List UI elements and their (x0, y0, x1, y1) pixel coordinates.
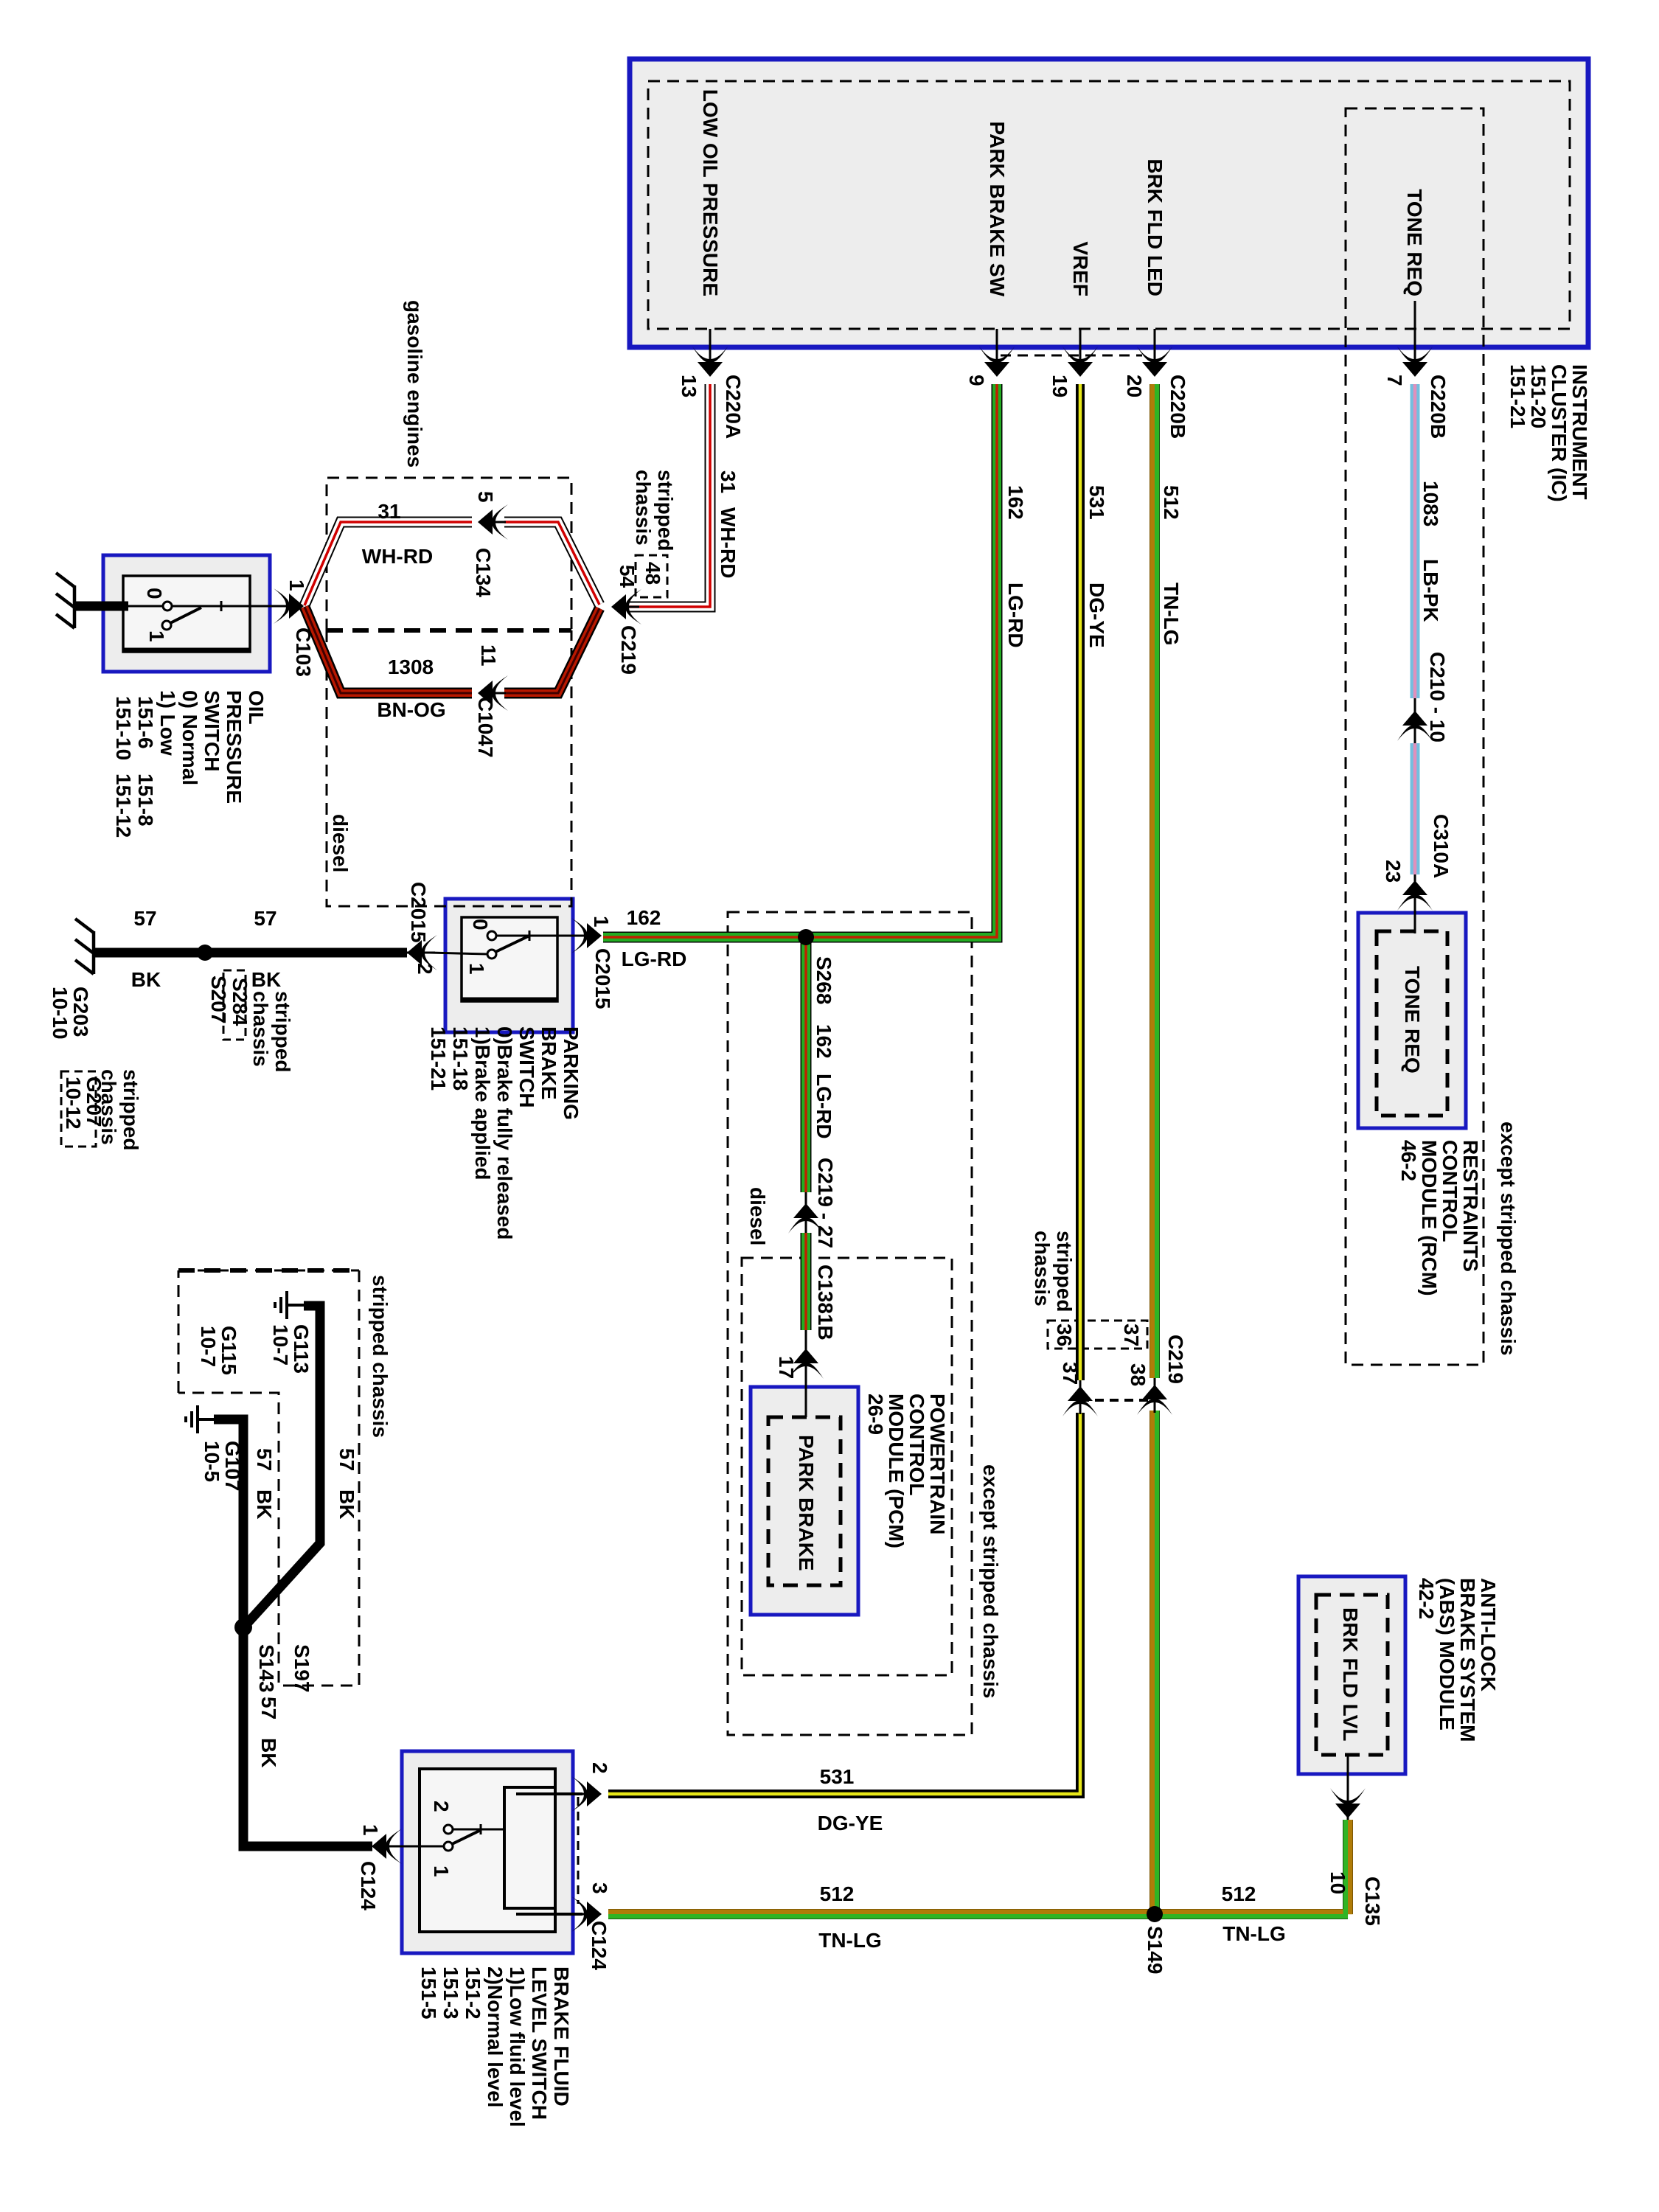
brake fluid level switch inner rect (420, 1769, 555, 1932)
svg-text:512: 512 (1222, 1882, 1256, 1905)
connector C219-27 arrow (788, 1203, 824, 1234)
thin line brake fluid pin 2 (516, 1792, 582, 1795)
dashed boxlet around 48 (636, 555, 667, 597)
svg-text:42-2: 42-2 (1415, 1578, 1438, 1619)
wire 1083 LB-PK from C210-10 to C310A (1411, 743, 1420, 931)
svg-text:except stripped chassis: except stripped chassis (979, 1464, 1002, 1698)
brake fluid level switch element rect (504, 1787, 555, 1908)
svg-text:stripped: stripped (271, 991, 294, 1072)
svg-text:151-18: 151-18 (449, 1026, 472, 1091)
svg-text:DG-YE: DG-YE (1085, 582, 1108, 648)
IC pin stubs (710, 301, 1415, 363)
svg-text:2: 2 (588, 1762, 611, 1774)
svg-text:BK: BK (257, 1738, 280, 1767)
svg-text:VREF: VREF (1069, 241, 1092, 296)
svg-text:162: 162 (1004, 485, 1027, 520)
oil pressure switch contacts (162, 601, 285, 630)
svg-text:1: 1 (145, 630, 168, 642)
svg-text:10-5: 10-5 (201, 1441, 223, 1482)
diesel dashed box around PCM circuit (728, 912, 972, 1735)
svg-text:151-21: 151-21 (427, 1026, 450, 1091)
svg-text:C220B: C220B (1166, 375, 1189, 439)
thin line brake fluid pin 3 (516, 1913, 582, 1916)
svg-text:S268: S268 (813, 956, 835, 1004)
svg-text:stripped: stripped (1053, 1231, 1076, 1312)
powertrain control module (PCM) box (751, 1387, 858, 1615)
svg-text:9: 9 (965, 375, 988, 386)
svg-text:LG-RD: LG-RD (1004, 582, 1027, 648)
svg-text:151-2: 151-2 (462, 1966, 484, 2020)
thin line RCM TONE REQ stub (1414, 905, 1416, 933)
ground wire into oil pressure switch (76, 602, 128, 611)
wire 57 BK from G203 to parking brake switch pin 2 (95, 948, 407, 958)
svg-text:C219 - 27: C219 - 27 (814, 1158, 837, 1248)
svg-text:PARK BRAKE: PARK BRAKE (795, 1435, 818, 1571)
thin line C124 pin1 into switch (394, 1846, 453, 1848)
svg-text:C219: C219 (1164, 1335, 1187, 1384)
svg-text:chassis: chassis (97, 1069, 120, 1145)
svg-text:7: 7 (1383, 375, 1406, 386)
svg-text:LOW OIL PRESSURE: LOW OIL PRESSURE (699, 89, 722, 296)
svg-text:C210 - 10: C210 - 10 (1426, 652, 1449, 742)
svg-text:BK: BK (131, 968, 161, 991)
connector C220A pin 13 arrow (692, 347, 728, 377)
svg-text:WH-RD: WH-RD (717, 507, 740, 578)
svg-text:BRK FLD LED: BRK FLD LED (1144, 159, 1166, 296)
svg-text:stripped chassis: stripped chassis (369, 1275, 392, 1438)
svg-text:C2015: C2015 (591, 948, 614, 1009)
svg-text:gasoline engines: gasoline engines (403, 300, 426, 467)
svg-text:162: 162 (627, 906, 661, 929)
svg-text:48: 48 (641, 562, 664, 585)
wire 162 LG-RD branch from S268 to C219-27 (801, 937, 812, 1233)
svg-text:38: 38 (1127, 1363, 1150, 1386)
svg-text:C219: C219 (617, 625, 640, 675)
svg-text:RESTRAINTS: RESTRAINTS (1459, 1140, 1482, 1272)
ground symbol G113 (275, 1291, 305, 1319)
svg-text:0)Brake fully released: 0)Brake fully released (493, 1026, 516, 1240)
svg-text:G113: G113 (290, 1324, 313, 1374)
svg-text:37: 37 (1120, 1324, 1143, 1346)
svg-text:WH-RD: WH-RD (362, 545, 433, 568)
svg-text:S143: S143 (255, 1644, 278, 1692)
svg-text:C1381B: C1381B (814, 1265, 837, 1340)
svg-text:1083: 1083 (1419, 481, 1442, 526)
connector C219 WH-RD arrow (611, 589, 641, 625)
svg-text:TONE REQ: TONE REQ (1403, 189, 1426, 296)
parking brake switch contacts (487, 931, 573, 959)
dashed link between C124 pins 2 and 3 (577, 1797, 580, 1904)
diesel dashed box (hexagon lower) (327, 630, 571, 906)
svg-text:23: 23 (1382, 860, 1405, 883)
ground symbol G103 (56, 573, 74, 628)
svg-text:chassis: chassis (632, 470, 655, 546)
ABS module box (1298, 1576, 1405, 1774)
svg-text:512: 512 (820, 1882, 855, 1905)
svg-text:1: 1 (590, 916, 613, 928)
svg-text:MODULE (RCM): MODULE (RCM) (1418, 1140, 1441, 1296)
wire 1308 BN-OG hexagon bottom branch (diesel) (305, 607, 599, 693)
svg-text:0: 0 (469, 919, 492, 931)
svg-text:SWITCH: SWITCH (515, 1026, 538, 1107)
dashed bracket line below IC pins (1001, 355, 1142, 357)
svg-text:512: 512 (1160, 485, 1183, 520)
svg-text:531: 531 (1085, 485, 1108, 520)
svg-text:G203: G203 (69, 987, 92, 1037)
brake fluid level switch contacts (444, 1824, 504, 1851)
connector C310A pin 23 arrow (1397, 880, 1433, 911)
svg-text:S197: S197 (291, 1644, 313, 1692)
svg-text:BRK FLD LVL: BRK FLD LVL (1339, 1607, 1362, 1741)
svg-text:57: 57 (253, 1448, 276, 1471)
svg-text:1: 1 (465, 963, 488, 975)
ground symbol G107 (186, 1405, 215, 1433)
wire 162 LG-RD from C219-27 to C1381B (801, 1233, 812, 1417)
splice S207 (197, 945, 213, 961)
svg-text:10-12: 10-12 (62, 1077, 85, 1130)
svg-text:1: 1 (359, 1824, 382, 1836)
svg-text:S284: S284 (229, 978, 251, 1026)
svg-text:531: 531 (820, 1765, 855, 1788)
splice S143 (234, 1618, 252, 1636)
connector C135 pin 10 arrow (1330, 1788, 1366, 1818)
svg-text:1: 1 (430, 1865, 453, 1877)
svg-text:BK: BK (335, 1489, 358, 1519)
svg-text:LEVEL SWITCH: LEVEL SWITCH (528, 1966, 551, 2120)
svg-text:CONTROL: CONTROL (905, 1394, 928, 1495)
thin line parking brake pin 2 arrow gap (407, 952, 430, 954)
svg-text:CLUSTER (IC): CLUSTER (IC) (1548, 364, 1571, 502)
tall dashed box around TONE REQ circuit (1346, 108, 1484, 1365)
svg-text:diesel: diesel (329, 814, 352, 872)
dashed boxlet around G207 10-12 (61, 1071, 96, 1147)
svg-text:151-10: 151-10 (112, 696, 135, 760)
svg-text:OIL: OIL (245, 690, 268, 725)
svg-text:0) Normal: 0) Normal (178, 690, 201, 785)
svg-text:57: 57 (257, 1697, 280, 1719)
svg-text:CONTROL: CONTROL (1439, 1140, 1461, 1242)
svg-text:LG-RD: LG-RD (813, 1074, 835, 1139)
svg-text:1) Low: 1) Low (156, 690, 179, 756)
connector C103 pin 1 arrow (274, 588, 304, 624)
C219 dashed boxlet 36/37 (1048, 1321, 1147, 1349)
svg-text:57: 57 (335, 1448, 358, 1471)
svg-text:PARKING: PARKING (560, 1026, 582, 1120)
svg-text:SWITCH: SWITCH (201, 690, 223, 771)
connector C2015 pin 2 arrow (407, 935, 437, 970)
connector C1381B pin 17 arrow (788, 1349, 824, 1379)
RCM TONE REQ dashed box (1377, 931, 1447, 1116)
svg-text:MODULE (PCM): MODULE (PCM) (885, 1394, 908, 1548)
splice S268 (798, 929, 814, 945)
svg-text:ANTI-LOCK: ANTI-LOCK (1477, 1578, 1500, 1691)
svg-text:151-20: 151-20 (1527, 364, 1550, 428)
svg-text:10: 10 (1326, 1871, 1349, 1894)
svg-text:2: 2 (414, 963, 437, 975)
connector C2015 pin 1 arrow (571, 918, 602, 953)
svg-text:2)Normal level: 2)Normal level (484, 1966, 507, 2107)
svg-text:57: 57 (254, 907, 276, 930)
wire 162 LG-RD from IC pin 9 to S268 and parking brake switch (603, 384, 997, 937)
svg-text:stripped: stripped (654, 470, 677, 551)
svg-text:TONE REQ: TONE REQ (1401, 966, 1424, 1074)
svg-text:13: 13 (678, 375, 700, 397)
svg-text:3: 3 (588, 1882, 611, 1894)
svg-text:BK: BK (251, 968, 281, 991)
svg-text:chassis: chassis (249, 991, 272, 1067)
connector C124 pin 1 arrow (372, 1829, 402, 1864)
svg-text:TN-LG: TN-LG (818, 1929, 882, 1952)
ABS BRK FLD LVL dashed box (1316, 1595, 1388, 1755)
svg-text:PRESSURE: PRESSURE (223, 690, 246, 804)
svg-text:37: 37 (1059, 1362, 1082, 1385)
connector C220B pin 9 arrow (979, 347, 1015, 377)
svg-text:162: 162 (813, 1024, 835, 1059)
svg-text:POWERTRAIN: POWERTRAIN (926, 1394, 949, 1534)
brake fluid level switch box (402, 1751, 573, 1953)
svg-text:(ABS) MODULE: (ABS) MODULE (1436, 1578, 1458, 1731)
svg-text:TN-LG: TN-LG (1222, 1922, 1286, 1945)
svg-text:151-8: 151-8 (134, 773, 157, 827)
svg-text:diesel: diesel (746, 1187, 769, 1245)
svg-text:chassis: chassis (1031, 1231, 1054, 1307)
instrument cluster (IC) box (630, 59, 1588, 347)
svg-text:0: 0 (143, 588, 166, 599)
svg-text:1308: 1308 (388, 655, 434, 678)
wire 57 BK G107 branch through S143 to C124 pin 1 (214, 1419, 372, 1846)
parking brake switch box (445, 899, 573, 1032)
svg-text:INSTRUMENT: INSTRUMENT (1568, 364, 1591, 500)
svg-text:LB-PK: LB-PK (1419, 559, 1442, 622)
connector C210-10 arrow (1397, 711, 1433, 741)
svg-text:11: 11 (477, 644, 500, 667)
connector C220B pin 20 arrow (1137, 347, 1172, 377)
svg-text:C220A: C220A (722, 375, 745, 439)
splice S149 (1147, 1906, 1163, 1922)
parking brake switch inner rect (462, 917, 557, 1001)
connector C1047 pin 11 arrow (478, 675, 508, 711)
svg-text:17: 17 (775, 1356, 798, 1379)
connector C220B pin 7 arrow (1397, 347, 1433, 377)
thin line parking brake pin 1 (573, 935, 584, 937)
connector C220B pin 19 arrow (1062, 347, 1098, 377)
bold dashed divider line (327, 628, 571, 633)
svg-text:31: 31 (378, 500, 400, 523)
svg-text:stripped: stripped (119, 1069, 142, 1150)
svg-text:BN-OG: BN-OG (377, 698, 445, 721)
svg-text:LG-RD: LG-RD (622, 947, 687, 970)
svg-text:G107: G107 (221, 1441, 244, 1492)
wire 512 TN-LG horizontal from brake fluid switch pin 3 through S149 to C135 (608, 1755, 1350, 1916)
wire 512 TN-LG from IC pin 20 to C219 (1152, 384, 1157, 1411)
svg-text:S149: S149 (1144, 1926, 1166, 1974)
wire 512 TN-LG from C219 to S149 (1152, 1411, 1157, 1914)
svg-text:DG-YE: DG-YE (818, 1812, 883, 1834)
wire 31 WH-RD from IC pin 13 (628, 384, 710, 607)
svg-text:C103: C103 (292, 627, 315, 677)
PCM PARK BRAKE dashed box (768, 1417, 841, 1585)
IC inner dashed outline (648, 81, 1570, 329)
svg-text:G115: G115 (218, 1326, 240, 1375)
wire 531 DG-YE from C219 to brake fluid level switch pin 2 (608, 1413, 1080, 1794)
dashed link between C219 pins 37 and 38 (1080, 1399, 1155, 1402)
svg-text:2: 2 (430, 1801, 453, 1812)
svg-text:151-5: 151-5 (417, 1966, 440, 2020)
svg-text:S207: S207 (207, 975, 230, 1023)
oil pressure switch inner rect (123, 576, 250, 652)
restraints control module (RCM) box (1358, 913, 1466, 1128)
svg-text:C134: C134 (472, 548, 495, 597)
svg-text:151-3: 151-3 (439, 1966, 462, 2020)
svg-text:26-9: 26-9 (864, 1394, 887, 1435)
thin line ABS BRK FLD LVL stub (1347, 1755, 1349, 1808)
stripped chassis dashed box around G113 ground (178, 1270, 359, 1686)
svg-text:1)Brake applied: 1)Brake applied (471, 1026, 494, 1180)
svg-text:151-6: 151-6 (134, 696, 157, 749)
svg-text:46-2: 46-2 (1397, 1140, 1420, 1181)
wire WH-RD hexagon top branch (gasoline) (305, 522, 599, 605)
wire 1083 LB-PK from IC pin 7 to C210-10 (1411, 384, 1420, 743)
svg-text:10-7: 10-7 (197, 1326, 220, 1367)
connector C124 pin 3 arrow (571, 1896, 602, 1932)
gasoline engines dashed box (327, 478, 571, 630)
svg-text:1: 1 (285, 580, 308, 591)
dashed boxlet around S284 (223, 970, 246, 1040)
oil pressure switch box (103, 555, 270, 672)
svg-text:BK: BK (253, 1489, 276, 1519)
svg-text:PARK BRAKE SW: PARK BRAKE SW (986, 122, 1009, 297)
wire 57 BK G113 branch to S143 (246, 1306, 320, 1624)
svg-text:54: 54 (616, 565, 639, 588)
svg-text:10-7: 10-7 (269, 1324, 292, 1366)
svg-text:BRAKE SYSTEM: BRAKE SYSTEM (1456, 1578, 1479, 1742)
svg-text:BRAKE: BRAKE (538, 1026, 560, 1100)
svg-text:C124: C124 (588, 1921, 611, 1970)
svg-text:TN-LG: TN-LG (1160, 582, 1183, 646)
svg-text:10-10: 10-10 (49, 987, 72, 1040)
connector C134 pin 5 arrow (478, 504, 508, 540)
svg-text:20: 20 (1123, 375, 1146, 397)
svg-text:BRAKE FLUID: BRAKE FLUID (550, 1966, 573, 2107)
connector C124 pin 2 arrow (571, 1776, 602, 1812)
wire 531 DG-YE from IC pin 19 to C219 (1076, 384, 1085, 1413)
svg-text:C2015: C2015 (407, 882, 430, 943)
ground symbol G203 (75, 919, 94, 974)
connector C219 pin 38 arrow (1137, 1385, 1172, 1415)
svg-text:151-21: 151-21 (1506, 364, 1529, 428)
svg-text:31: 31 (717, 470, 740, 493)
svg-text:except stripped chassis: except stripped chassis (1497, 1121, 1520, 1355)
svg-text:C220B: C220B (1427, 375, 1450, 439)
svg-text:C1047: C1047 (474, 697, 497, 758)
except stripped chassis dashed box around PCM (742, 1258, 952, 1675)
svg-text:151-12: 151-12 (112, 773, 135, 838)
connector C219 pin 37 arrow (1062, 1386, 1098, 1416)
svg-text:C310A: C310A (1430, 814, 1453, 878)
svg-text:C135: C135 (1361, 1877, 1384, 1926)
svg-text:C124: C124 (357, 1861, 380, 1910)
svg-text:57: 57 (133, 907, 156, 930)
svg-text:5: 5 (474, 491, 497, 503)
svg-text:19: 19 (1048, 375, 1071, 397)
svg-text:1)Low fluid level: 1)Low fluid level (506, 1966, 529, 2127)
svg-text:36: 36 (1053, 1324, 1076, 1346)
